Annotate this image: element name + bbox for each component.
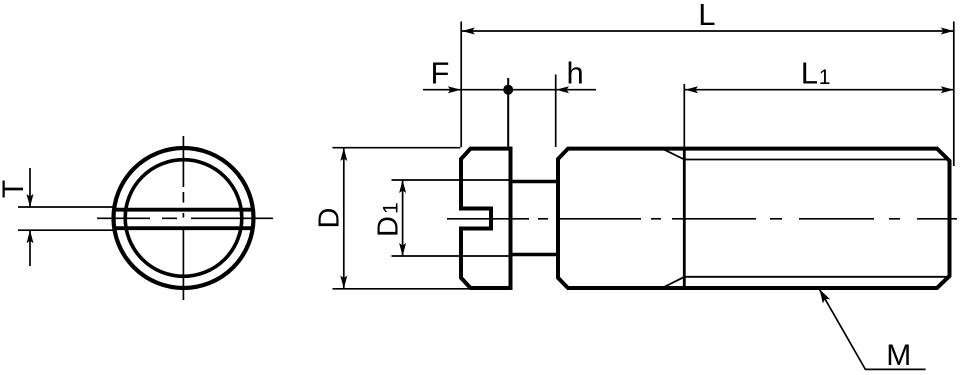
dimension T: bottom extension line [18, 229, 116, 231]
svg-text:L: L [801, 56, 818, 91]
dimension D: extension line top [333, 147, 461, 149]
thread callout M: arrowhead [820, 289, 831, 303]
dimension D1: bottom arrow [399, 243, 406, 256]
side view: thread root top line [684, 159, 948, 161]
front view: slot top edge [113, 208, 254, 212]
svg-text:T: T [0, 180, 30, 198]
dimension T: top extension line [18, 206, 116, 208]
svg-text:D: D [314, 208, 346, 229]
dimension L: extension line right (shank end) [953, 22, 955, 167]
dimension F/h: shared dimension line [423, 89, 596, 91]
extension line: head right face up to dot [507, 78, 509, 147]
svg-text:h: h [567, 56, 584, 91]
dimension D1: dimension line [402, 180, 404, 256]
dimension D1: extension line top [392, 179, 513, 181]
dimension L1: left arrow [685, 86, 698, 93]
dimension L1: right arrow [941, 86, 954, 93]
dimension D: dimension line [343, 148, 345, 289]
dimension L1: extension line left (thread start) [683, 84, 685, 150]
dimension D1: label D1 (rotated) [373, 202, 405, 237]
svg-text:F: F [431, 56, 450, 91]
dimension L: left arrow [462, 28, 475, 35]
side view: thread runout bottom diagonal [662, 277, 684, 288]
dimension h: arrow pointing left at shank face [556, 86, 569, 93]
dimension D: top arrow [340, 148, 347, 161]
dimension F: dot terminator at head right face [503, 85, 513, 95]
side view: neck bottom edge [511, 253, 559, 257]
side view: horizontal centerline [447, 218, 957, 220]
dimension F: arrow pointing right at head left face [448, 86, 461, 93]
front view: slot bottom edge [113, 226, 254, 230]
front view: vertical centerline [182, 136, 184, 300]
dimension h: extension line at shank left face [555, 75, 557, 148]
side view: thread runout top diagonal [662, 149, 684, 160]
side view: thread root bottom line [684, 276, 948, 278]
side view: thread start line [683, 150, 686, 286]
dimension T: lower dimension line with arrow [29, 230, 31, 266]
dimension D: extension line bottom [333, 288, 470, 290]
side view: screw head profile with slot notch [461, 147, 511, 290]
side view: shank outline [558, 149, 950, 288]
svg-text:1: 1 [380, 202, 403, 214]
svg-text:D: D [373, 216, 405, 237]
front view: head inner circle [125, 160, 242, 277]
dimension D: bottom arrow [340, 276, 347, 289]
dimension L: extension line left (head left face) [460, 22, 462, 148]
front view: head outer circle [114, 148, 254, 288]
thread callout M: leader line [820, 289, 926, 369]
front view: horizontal centerline [97, 217, 273, 219]
dimension L: dimension line [462, 30, 954, 32]
svg-text:M: M [886, 339, 911, 372]
svg-text:L: L [698, 0, 715, 32]
dimension D1: top arrow [399, 180, 406, 193]
side view: neck top edge [511, 180, 559, 184]
dimension L1: dimension line [685, 89, 954, 91]
dimension D1: extension line bottom [392, 255, 513, 257]
dimension L: right arrow [941, 28, 954, 35]
dimension T: upper dimension line with arrow [29, 168, 31, 207]
svg-text:1: 1 [819, 66, 831, 89]
